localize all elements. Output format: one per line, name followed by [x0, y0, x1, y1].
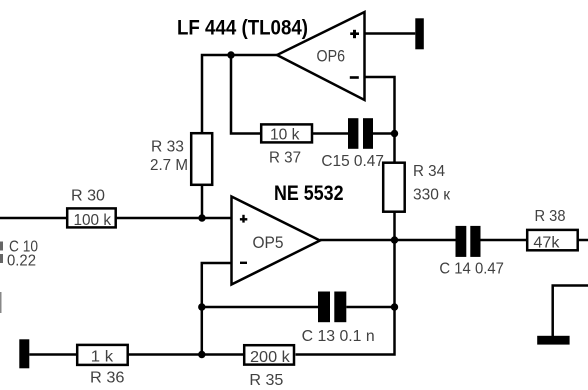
label R 35	[249, 372, 283, 389]
label 330 k	[413, 187, 450, 204]
label R 36	[90, 370, 125, 387]
svg-text:100 k: 100 k	[74, 212, 112, 229]
wire R36 to node	[128, 353, 244, 356]
svg-text:R 38: R 38	[535, 208, 566, 225]
svg-text:0.22: 0.22	[7, 253, 36, 270]
wire OP6 output to left	[202, 55, 277, 133]
node junction bottom	[198, 351, 205, 358]
node junction output R34	[391, 236, 398, 243]
label C 10	[9, 239, 38, 256]
node junction on OP6 output wire	[227, 51, 234, 58]
resistor R33 body	[191, 133, 212, 185]
clipped glyph tick 2	[0, 254, 3, 263]
wire OP6 plus input to terminal	[365, 32, 416, 35]
op-amp U5 (OP5) triangle	[232, 197, 321, 285]
label C 14 0.47	[439, 261, 504, 278]
wire R38 to right edge	[578, 239, 588, 242]
clipped glyph tick 1	[0, 242, 3, 251]
node junction R33 bottom plus input	[198, 214, 205, 221]
capacitor C14 plates	[456, 226, 481, 257]
label 10 k	[270, 126, 300, 143]
label 200 k	[250, 349, 290, 366]
wire OP5 minus input branch	[202, 263, 232, 355]
wire C14 to R38	[481, 239, 528, 242]
svg-text:R 34: R 34	[413, 163, 445, 180]
ground bar	[537, 336, 569, 345]
wire R37 to C15	[313, 132, 348, 135]
svg-text:2.7 M: 2.7 M	[150, 157, 188, 174]
svg-text:NE 5532: NE 5532	[274, 181, 344, 205]
svg-text:C15 0.47: C15 0.47	[321, 153, 384, 170]
wire C13 left lead	[202, 306, 318, 309]
svg-text:47k: 47k	[533, 235, 559, 252]
svg-text:R 33: R 33	[151, 139, 184, 156]
svg-text:R 35: R 35	[249, 372, 283, 389]
wire OP6 minus input to feedback node	[365, 77, 395, 162]
clipped glyph tick 3	[0, 292, 2, 313]
wire C13 right lead	[346, 306, 394, 309]
label 100 k	[74, 212, 112, 229]
resistor R37 body	[261, 124, 312, 142]
svg-text:OP6: OP6	[317, 47, 346, 66]
label R 33	[151, 139, 184, 156]
terminal bar bottom left	[19, 339, 29, 368]
label C 13 0.1 n	[302, 328, 375, 345]
label R 37	[269, 149, 301, 166]
resistor R30 body	[67, 208, 116, 227]
node junction C13 right	[391, 303, 398, 310]
label 2.7 M	[150, 157, 188, 174]
OP6 plus input symbol	[350, 30, 359, 38]
op-amp U6 (OP6) triangle	[277, 12, 365, 100]
wire R33 bottom lead	[201, 186, 204, 218]
node junction C15 feedback	[391, 130, 398, 137]
terminal bar top right	[415, 18, 424, 49]
svg-text:200 k: 200 k	[250, 349, 290, 366]
wire output node down to 200k corner	[296, 240, 395, 355]
label 0.22	[7, 253, 36, 270]
capacitor C15 plates	[348, 118, 373, 149]
label R 38	[535, 208, 566, 225]
label LF 444 (TL084)	[177, 16, 308, 40]
wire junction down to R37	[231, 55, 261, 134]
svg-text:C 14 0.47: C 14 0.47	[439, 261, 504, 278]
label R 34	[413, 163, 445, 180]
wire OP5 output line	[320, 239, 456, 242]
OP5 plus input symbol	[240, 215, 247, 223]
svg-text:1 k: 1 k	[91, 349, 114, 366]
op-amp OP6 label	[317, 47, 346, 66]
svg-text:R 37: R 37	[269, 149, 301, 166]
resistor R34 body	[383, 163, 405, 212]
label 47k	[533, 235, 559, 252]
label NE 5532	[274, 181, 344, 205]
svg-text:C 13 0.1 n: C 13 0.1 n	[302, 328, 375, 345]
wire ground branch right	[553, 286, 588, 337]
svg-text:R 30: R 30	[71, 188, 105, 205]
svg-text:330 к: 330 к	[413, 187, 450, 204]
capacitor C13 plates	[318, 292, 346, 323]
label 1 k	[91, 349, 114, 366]
OP5 minus input symbol	[240, 262, 247, 264]
svg-text:R 36: R 36	[90, 370, 125, 387]
wire input line to OP5 plus	[0, 217, 232, 220]
op-amp OP5 label	[253, 233, 284, 252]
node junction C13 left	[198, 303, 205, 310]
resistor R38 body	[527, 230, 578, 250]
svg-text:OP5: OP5	[253, 233, 284, 252]
OP6 minus input symbol	[350, 76, 359, 79]
svg-text:10 k: 10 k	[270, 126, 300, 143]
svg-text:LF 444 (TL084): LF 444 (TL084)	[177, 16, 308, 40]
wire terminal to R36	[29, 353, 77, 356]
wire R34 bottom to output line	[393, 212, 396, 240]
wire C15 to feedback node	[373, 132, 395, 135]
label C15 0.47	[321, 153, 384, 170]
resistor R35 body	[244, 345, 294, 364]
resistor R36 body	[77, 345, 128, 365]
label R 30	[71, 188, 105, 205]
